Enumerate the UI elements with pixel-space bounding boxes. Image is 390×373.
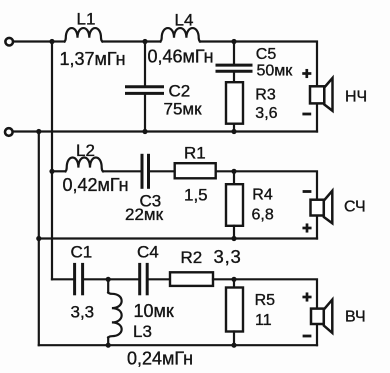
capacitor C2 xyxy=(127,87,163,94)
node D xyxy=(231,169,236,174)
wire L2 to C3 xyxy=(103,170,142,172)
node E (L3 tap) xyxy=(106,277,111,282)
svg-text:C4: C4 xyxy=(137,243,159,262)
wire R3 down to minus rail 1 xyxy=(233,124,235,132)
polarity + BA1 xyxy=(304,70,310,76)
svg-text:0,42мГн: 0,42мГн xyxy=(63,175,129,195)
wire minus rail 2 xyxy=(39,237,317,239)
svg-text:R4: R4 xyxy=(252,187,273,204)
wire node D down to R4 xyxy=(233,171,235,184)
wire R1 to node D xyxy=(216,170,234,172)
node R3-rail1 xyxy=(231,129,236,134)
terminal T2 (bottom input) xyxy=(5,128,13,136)
svg-text:R5: R5 xyxy=(255,292,276,309)
wire R2 to node F xyxy=(213,278,234,280)
resistor R2 xyxy=(170,272,213,286)
resistor R1 xyxy=(175,163,216,178)
wire C2 down to minus rail 1 xyxy=(144,95,146,132)
svg-text:СЧ: СЧ xyxy=(344,199,366,216)
polarity - BA1 xyxy=(304,113,310,116)
polarity + BA3 xyxy=(304,294,310,300)
svg-text:C1: C1 xyxy=(71,243,93,262)
wire R5 down to minus rail 3 xyxy=(233,332,235,346)
wire L1 to node B xyxy=(103,40,146,42)
node C xyxy=(231,39,236,44)
capacitor C3 xyxy=(142,155,149,187)
speaker BA2 (СЧ midrange) xyxy=(311,191,333,224)
wire node C down to C5 xyxy=(233,42,235,65)
svg-text:10мк: 10мк xyxy=(134,301,174,321)
svg-text:1,37мГн: 1,37мГн xyxy=(60,49,126,69)
svg-text:R1: R1 xyxy=(184,144,206,163)
inductor L2 xyxy=(65,157,103,171)
svg-text:ВЧ: ВЧ xyxy=(345,309,366,326)
polarity - BA2 xyxy=(304,190,310,193)
svg-text:3,3: 3,3 xyxy=(71,303,95,322)
resistor R4 xyxy=(226,184,243,226)
svg-text:L3: L3 xyxy=(133,322,152,341)
wire node F to right corner and down to speaker BA3 xyxy=(234,279,317,345)
svg-text:НЧ: НЧ xyxy=(345,89,367,106)
svg-text:3,3: 3,3 xyxy=(214,246,242,267)
wire L3 down to minus rail 3 xyxy=(107,338,109,346)
wire node A to L1 xyxy=(52,40,65,42)
node rail2-minus-bus xyxy=(36,236,41,241)
wire R4 down to minus rail 2 xyxy=(233,226,235,239)
wire L4 to node C xyxy=(200,40,234,42)
svg-text:R3: R3 xyxy=(255,87,276,104)
inductor L4 xyxy=(160,28,200,41)
node L2 feed xyxy=(49,169,54,174)
resistor R3 xyxy=(226,82,243,124)
svg-text:C2: C2 xyxy=(169,82,191,101)
terminal T1 (top input) xyxy=(5,38,13,46)
wire minus-bus (down left side) xyxy=(38,132,40,346)
node minus-bus top xyxy=(36,129,41,134)
wire to L2 xyxy=(52,170,65,172)
wire node C to right corner and down to speaker BA1 xyxy=(234,42,317,132)
wire node E down to L3 xyxy=(107,279,109,292)
wire node B down to C2 xyxy=(144,42,146,86)
inductor L3 xyxy=(108,293,121,338)
capacitor C5 xyxy=(217,65,251,71)
wire C1 row from plus-bus corner xyxy=(52,278,73,280)
capacitor C1 xyxy=(75,264,83,293)
svg-text:3,6: 3,6 xyxy=(255,105,277,122)
wire node E to C4 xyxy=(108,278,138,280)
polarity - BA3 xyxy=(304,335,310,338)
inductor L1 xyxy=(65,28,103,41)
node R5-rail3 xyxy=(231,343,236,348)
speaker BA1 (НЧ woofer) xyxy=(310,78,333,111)
wire node B to L4 xyxy=(145,40,160,42)
wire plus-bus (node A down to C1 row corner) xyxy=(51,42,53,280)
wire minus rail 1 xyxy=(13,130,317,132)
polarity + BA2 xyxy=(304,225,310,231)
speaker BA3 (ВЧ tweeter) xyxy=(311,300,332,333)
svg-text:11: 11 xyxy=(255,312,272,329)
wire C1 to node E xyxy=(83,278,109,280)
resistor R5 xyxy=(226,288,243,332)
svg-text:L1: L1 xyxy=(77,10,96,29)
node L3-rail3 xyxy=(106,343,111,348)
svg-text:L2: L2 xyxy=(76,141,95,160)
wire node F down to R5 xyxy=(233,279,235,287)
wire C5 to R3 xyxy=(233,73,235,83)
node F xyxy=(231,277,236,282)
svg-text:L4: L4 xyxy=(175,11,194,30)
node C2-rail1 xyxy=(142,129,147,134)
wire C4 to R2 xyxy=(147,278,170,280)
wire node D to right corner and down to speaker BA2 xyxy=(234,171,317,238)
svg-text:6,8: 6,8 xyxy=(252,207,274,224)
capacitor C4 xyxy=(140,264,148,293)
svg-text:22мк: 22мк xyxy=(125,205,164,224)
node A xyxy=(49,39,54,44)
node B xyxy=(142,39,147,44)
svg-text:1,5: 1,5 xyxy=(184,186,208,205)
svg-text:0,24мГн: 0,24мГн xyxy=(127,349,193,369)
wire C3 to R1 xyxy=(149,170,175,172)
wire minus rail 3 xyxy=(39,344,317,346)
svg-text:0,46мГн: 0,46мГн xyxy=(148,47,214,67)
svg-text:75мк: 75мк xyxy=(164,100,203,119)
wire T1 to node A xyxy=(14,40,52,42)
svg-text:50мк: 50мк xyxy=(257,63,294,80)
svg-text:C5: C5 xyxy=(256,46,277,63)
node R4-rail2 xyxy=(231,236,236,241)
svg-text:R2: R2 xyxy=(181,248,203,267)
